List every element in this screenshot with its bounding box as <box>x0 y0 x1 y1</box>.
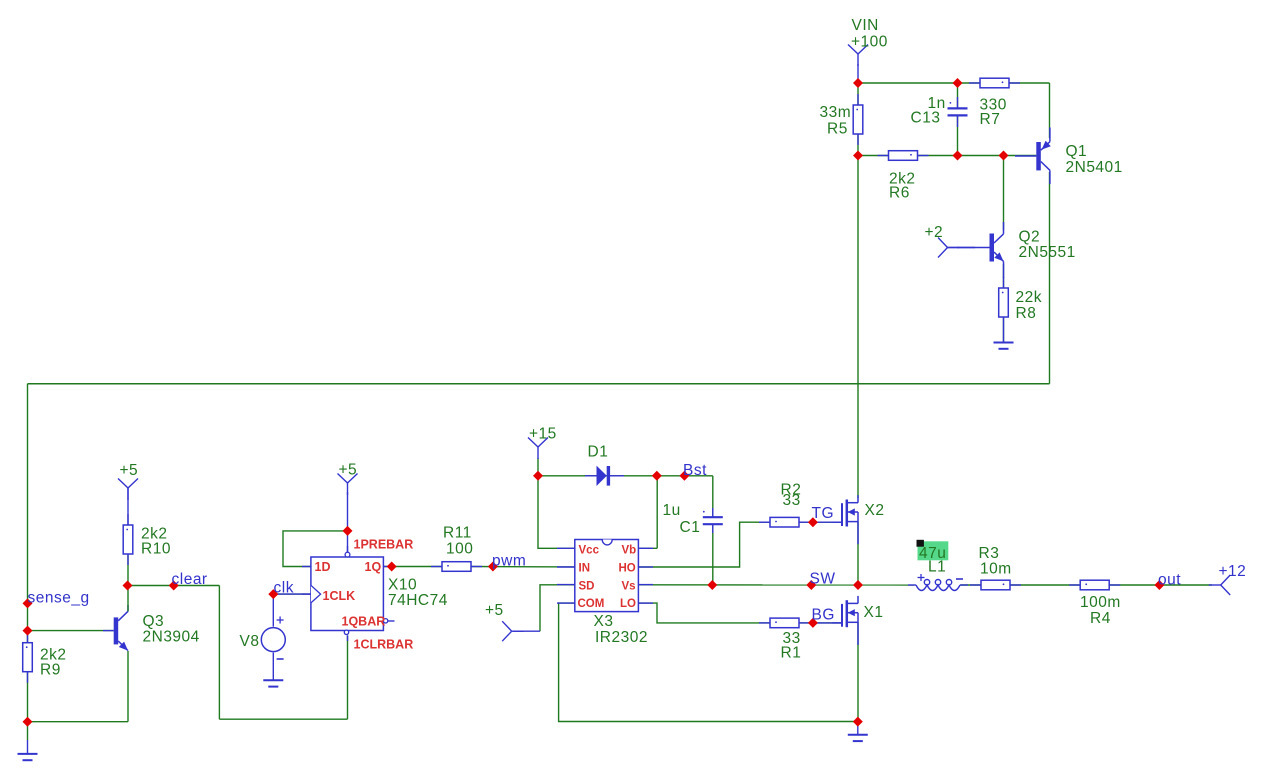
svg-text:1CLK: 1CLK <box>323 589 356 603</box>
svg-text:L1: L1 <box>928 559 946 576</box>
svg-text:COM: COM <box>578 598 605 610</box>
svg-text:R11: R11 <box>443 525 472 542</box>
svg-text:R1: R1 <box>781 645 802 662</box>
svg-text:X3: X3 <box>594 613 614 630</box>
svg-text:+2: +2 <box>925 224 944 241</box>
svg-text:IN: IN <box>579 563 591 575</box>
svg-text:+100: +100 <box>851 34 888 51</box>
svg-text:R8: R8 <box>1016 305 1037 322</box>
svg-text:Vs: Vs <box>622 581 636 593</box>
svg-text:R6: R6 <box>889 185 910 202</box>
svg-text:100: 100 <box>446 541 473 558</box>
svg-text:Q1: Q1 <box>1066 143 1088 160</box>
svg-text:clear: clear <box>172 571 208 588</box>
svg-text:X1: X1 <box>864 604 884 621</box>
svg-text:C1: C1 <box>680 519 701 536</box>
svg-text:100m: 100m <box>1080 594 1121 611</box>
svg-text:1QBAR: 1QBAR <box>342 615 386 629</box>
svg-text:Bst: Bst <box>683 462 707 479</box>
svg-text:R3: R3 <box>979 545 1000 562</box>
svg-text:IR2302: IR2302 <box>595 629 648 646</box>
svg-text:D1: D1 <box>588 444 609 461</box>
svg-text:2N3904: 2N3904 <box>143 629 200 646</box>
svg-text:R10: R10 <box>141 541 171 558</box>
svg-text:SD: SD <box>579 581 595 593</box>
svg-text:R5: R5 <box>827 121 848 138</box>
svg-text:33: 33 <box>783 492 801 509</box>
svg-text:+15: +15 <box>529 426 557 443</box>
svg-text:+5: +5 <box>120 462 139 479</box>
svg-text:SW: SW <box>810 571 836 588</box>
svg-text:33m: 33m <box>820 104 852 121</box>
svg-text:Vb: Vb <box>622 545 637 557</box>
svg-text:+5: +5 <box>339 462 358 479</box>
svg-text:2N5401: 2N5401 <box>1066 159 1123 176</box>
svg-text:R4: R4 <box>1090 610 1111 627</box>
svg-text:1D: 1D <box>315 560 331 574</box>
svg-text:1u: 1u <box>663 502 681 519</box>
svg-text:Q2: Q2 <box>1019 229 1041 246</box>
svg-text:22k: 22k <box>1016 289 1043 306</box>
svg-text:LO: LO <box>620 598 636 610</box>
svg-text:2N5551: 2N5551 <box>1019 244 1076 261</box>
svg-text:out: out <box>1158 572 1181 589</box>
svg-text:+5: +5 <box>485 602 504 619</box>
svg-text:HO: HO <box>619 563 636 575</box>
svg-text:sense_g: sense_g <box>28 590 90 607</box>
svg-text:X2: X2 <box>865 502 885 519</box>
svg-text:1Q: 1Q <box>365 560 382 574</box>
svg-text:clk: clk <box>274 580 294 597</box>
svg-text:10m: 10m <box>980 561 1012 578</box>
svg-text:pwm: pwm <box>492 553 526 570</box>
svg-text:C13: C13 <box>911 110 941 127</box>
svg-text:TG: TG <box>812 505 835 522</box>
svg-text:Q3: Q3 <box>143 613 165 630</box>
svg-text:1PREBAR: 1PREBAR <box>354 538 414 552</box>
svg-text:V8: V8 <box>240 633 260 650</box>
svg-text:R9: R9 <box>40 662 61 679</box>
svg-text:+12: +12 <box>1219 563 1247 580</box>
svg-text:Vcc: Vcc <box>579 545 600 557</box>
svg-text:VIN: VIN <box>852 17 879 34</box>
svg-text:R7: R7 <box>980 111 1001 128</box>
svg-text:1CLRBAR: 1CLRBAR <box>354 638 414 652</box>
svg-text:BG: BG <box>812 607 835 624</box>
svg-text:X10: X10 <box>388 577 417 594</box>
svg-text:74HC74: 74HC74 <box>388 592 448 609</box>
